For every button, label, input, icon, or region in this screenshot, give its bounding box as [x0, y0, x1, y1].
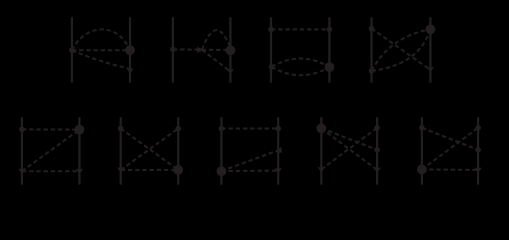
diagram B5 left nucleon line [421, 117, 423, 184]
diagram B2 left nucleon line [120, 117, 122, 184]
diagram D3 pion lens upper arc [272, 58, 330, 67]
diagram B5 bottom right arrow down [475, 168, 482, 173]
diagram B2 pion line bottom [121, 169, 179, 171]
diagram D1 pion line lower sag [72, 50, 129, 68]
diagram B5 pion line diagonal up [422, 128, 478, 170]
diagram B2 top left vertex dot [118, 126, 124, 132]
diagram D3 lens left vertex dot [269, 64, 275, 70]
diagram D4 left nucleon line [370, 17, 372, 82]
diagram B5 right nucleon line [477, 117, 479, 184]
diagram D1 big vertex dot [125, 45, 135, 55]
diagram D2 pion line horizontal [173, 48, 231, 51]
diagram D3 pion line top [271, 28, 329, 30]
diagram D4 pion line crossing diagonal [372, 29, 431, 70]
diagram D1 right nucleon line [129, 17, 131, 82]
diagram B3 top right vertex dot [275, 126, 281, 132]
diagram D2 mid arrow right [197, 47, 204, 53]
diagram B5 top left vertex dot [419, 125, 425, 131]
diagram B3 top left vertex dot [219, 126, 225, 132]
diagram B1 pion line top [22, 128, 80, 130]
diagram D1 arrow down [126, 69, 133, 74]
diagram B4 right nucleon line [376, 117, 378, 184]
diagram B3 mid right arrow [275, 147, 282, 153]
diagram D3 pion lens lower arc [272, 67, 330, 75]
diagram B4 pion line diagonal up [321, 128, 377, 169]
diagram B5 pion line bottom [422, 168, 478, 171]
diagram D2 left nucleon line [172, 17, 174, 82]
diagram B2 top right vertex dot [175, 126, 181, 132]
diagram B1 pion line diagonal [22, 130, 80, 172]
diagram D4 pion lens lower arc [372, 29, 431, 71]
diagram D4 arrow down [427, 67, 434, 72]
diagram B1 top left vertex dot [19, 127, 25, 133]
diagram B4 top right vertex dot [374, 125, 380, 131]
diagram D1 left nucleon line [71, 17, 73, 82]
diagram D4 top left vertex dot [369, 26, 375, 32]
diagram D2 pion loop hat [202, 30, 230, 49]
diagram B3 pion line bottom [221, 170, 278, 172]
diagram B2 pion line diagonal down [121, 129, 179, 170]
diagram B5 mid right vertex dot [475, 147, 481, 153]
diagram D4 big vertex dot [426, 24, 436, 34]
diagram D3 top left vertex dot [268, 27, 274, 33]
diagram B2 bottom left arrow down [117, 168, 124, 173]
diagram B2 big vertex dot [173, 165, 183, 175]
diagram D4 right nucleon line [429, 17, 431, 82]
diagram D1 pion arc upper [72, 29, 130, 50]
diagram D2 arrow down [227, 69, 234, 74]
diagram B3 bottom right arrow down [275, 168, 282, 173]
diagram B4 pion line shallow [321, 128, 377, 150]
diagram B4 big vertex dot [316, 123, 326, 133]
diagram D4 bottom left vertex dot [369, 68, 375, 74]
diagram B3 pion line top [221, 128, 278, 130]
diagram D3 top right vertex dot [327, 27, 333, 33]
diagram B2 right nucleon line [177, 117, 179, 184]
diagram B5 top right vertex dot [475, 125, 481, 131]
diagram B1 left nucleon line [21, 117, 23, 184]
diagram B1 big vertex dot [75, 125, 85, 135]
diagram B4 pion line steep down [321, 128, 377, 170]
diagram D1 pion line middle [72, 49, 130, 51]
diagram D3 right nucleon line [328, 17, 330, 82]
diagram B1 right nucleon line [78, 117, 80, 184]
diagram B4 mid right vertex dot [374, 147, 380, 153]
diagram B5 big vertex dot [417, 165, 427, 175]
diagram B4 bottom right arrow down [374, 168, 381, 173]
diagram B4 left nucleon line [320, 117, 322, 184]
diagram D2 big vertex dot [226, 46, 236, 56]
diagram B3 right nucleon line [277, 117, 279, 184]
diagram D1 left vertex dot [69, 48, 75, 54]
diagram D4 pion lens upper arc [372, 29, 431, 71]
diagram B1 pion line bottom [22, 170, 80, 172]
diagram D2 right nucleon line [229, 17, 231, 82]
diagram B1 bottom left arrow down [18, 169, 25, 174]
diagram D3 left nucleon line [270, 17, 272, 82]
diagram D3 big vertex dot [325, 62, 335, 72]
diagram D2 left vertex dot [170, 47, 176, 53]
diagram B3 pion line diagonal [221, 150, 278, 171]
diagram B3 left nucleon line [220, 117, 222, 184]
diagram B1 bottom right arrow down [76, 169, 83, 174]
diagram B4 bottom left arrow down [318, 167, 325, 172]
diagram B2 pion line diagonal up [121, 129, 179, 171]
diagram D2 pion line down [202, 50, 229, 71]
diagram B3 big vertex dot [217, 166, 227, 176]
diagram B5 pion line shallow [422, 128, 478, 150]
